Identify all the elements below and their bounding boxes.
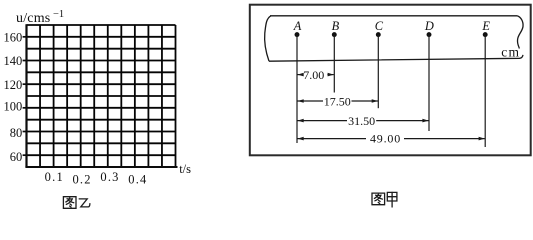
vertical line below D [428,35,430,131]
dimension 31.50 between A and D [297,114,428,128]
svg-text:31.50: 31.50 [348,114,375,128]
svg-text:0.2: 0.2 [72,173,91,187]
svg-text:0.3: 0.3 [100,170,119,184]
paper tape top edge [270,15,517,17]
svg-text:C: C [375,19,384,33]
point E dot [483,32,488,37]
point D dot [427,32,432,37]
svg-text:100: 100 [4,100,23,114]
frame of figure jia [250,5,531,156]
svg-text:0.1: 0.1 [45,170,64,184]
y axis line [25,24,27,167]
svg-text:D: D [424,19,434,33]
vertical line below C [377,35,379,109]
point C dot [376,32,381,37]
paper tape torn left edge [265,16,271,61]
svg-text:A: A [293,19,302,33]
y axis ticks [23,37,27,155]
svg-text:−1: −1 [53,9,64,20]
svg-text:60: 60 [10,150,23,164]
svg-text:80: 80 [10,126,23,140]
point B dot [332,32,337,37]
svg-text:0.4: 0.4 [128,173,147,187]
caption 图甲 (Figure Jia) [372,192,397,207]
svg-text:t/s: t/s [179,162,191,176]
svg-text:140: 140 [4,54,23,68]
point A dot [295,32,300,37]
dimension 7.00 between A and B [297,68,333,82]
svg-text:7.00: 7.00 [303,68,324,82]
paper tape torn right edge [517,16,523,49]
axis title u/cms^-1 [16,9,64,26]
dimension 49.00 between A and E [297,131,484,145]
vertical line below E [484,35,486,147]
vertical line below A [296,35,298,143]
grid of velocity-time graph [27,25,176,167]
svg-text:B: B [332,19,340,33]
svg-text:E: E [481,19,490,33]
svg-text:120: 120 [4,78,23,92]
caption 图乙 (Figure Yi) [63,197,89,209]
paper tape bottom edge (ruler line) [269,55,523,61]
svg-text:u/cms: u/cms [16,11,50,26]
svg-text:17.50: 17.50 [324,94,351,108]
svg-text:cm: cm [501,44,520,59]
svg-text:49.00: 49.00 [370,131,401,145]
x axis line [25,166,177,168]
vertical line below B [333,35,335,93]
dimension 17.50 between A and C [297,94,378,108]
svg-text:160: 160 [4,30,23,44]
